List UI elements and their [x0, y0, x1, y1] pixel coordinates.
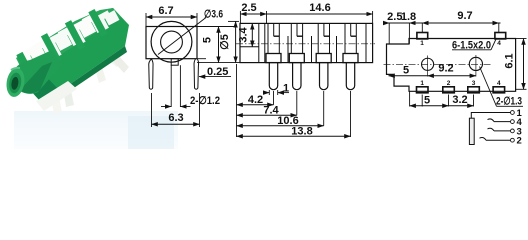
- svg-text:6.1: 6.1: [504, 53, 516, 68]
- top view: label 6-1.5x2.0: [452, 38, 497, 52]
- front view: left leg: [149, 59, 153, 89]
- side view: dim 2.5: [240, 2, 266, 23]
- top view: pad 1 top: [417, 33, 428, 48]
- photo: white pins behind body: [50, 33, 129, 114]
- photo: white base strip: [36, 81, 77, 111]
- side view: dim 14.6: [267, 2, 373, 23]
- top view: centerline: [384, 63, 493, 65]
- front view: right leg: [194, 59, 199, 89]
- front view: outer circle (bushing): [151, 21, 192, 62]
- schematic: contact to pin 4: [488, 117, 523, 128]
- svg-text:4.2: 4.2: [248, 94, 263, 106]
- side view: dim 7.4: [237, 104, 297, 116]
- side view: left ref ext line: [236, 64, 238, 137]
- top view: hole A: [422, 56, 434, 77]
- side view: contact 3: [316, 23, 331, 89]
- svg-text:2: 2: [447, 80, 451, 87]
- front view: dim dia5 vertical: [219, 21, 236, 62]
- side view: dim 10.6: [237, 115, 324, 127]
- top view: body outline: [387, 39, 516, 92]
- top view: top dim line: [384, 23, 501, 44]
- side view: dim 4.2: [237, 94, 274, 106]
- top view: dim 3.2 bottom: [449, 94, 474, 106]
- front view: body: [146, 27, 197, 59]
- svg-text:1: 1: [420, 40, 424, 47]
- svg-text:2-∅1.2: 2-∅1.2: [190, 95, 220, 107]
- svg-text:14.6: 14.6: [309, 2, 330, 14]
- schematic: wire to pin 1: [471, 108, 522, 119]
- svg-text:4: 4: [497, 40, 501, 47]
- front view: center tab: [171, 59, 178, 65]
- svg-text:9.2: 9.2: [438, 63, 453, 75]
- side view: dim 13.8: [237, 125, 351, 137]
- svg-text:∅5: ∅5: [219, 34, 231, 50]
- photo: green jack body: [16, 8, 129, 101]
- svg-text:4: 4: [497, 80, 501, 87]
- schematic: contact to pin 2: [480, 136, 522, 147]
- svg-text:6.7: 6.7: [158, 5, 173, 17]
- top view: label 2-dia1.3: [480, 67, 524, 108]
- side view: dim 1 (pin width): [263, 83, 289, 96]
- top view: dim 6.1 right: [504, 39, 527, 90]
- front view: dim 0.25: [197, 59, 231, 78]
- svg-text:2-∅1.3: 2-∅1.3: [496, 96, 522, 108]
- side view: left wall: [240, 23, 265, 62]
- schematic: sleeve bar: [469, 118, 474, 144]
- side view: pin ext lines: [274, 91, 351, 137]
- svg-text:∅3.6: ∅3.6: [204, 8, 223, 20]
- photo: white contact clips: [25, 12, 118, 70]
- front view: dim 6.7 text: [158, 5, 173, 17]
- svg-text:1.8: 1.8: [401, 11, 416, 23]
- front view: dim 6.3: [152, 93, 200, 127]
- front view: dim 6.7 line: [146, 13, 197, 27]
- svg-text:5: 5: [202, 37, 214, 43]
- front view: dim 5 vertical: [202, 27, 219, 63]
- front view: leader for dia 3.6: [158, 18, 206, 55]
- side view: contact 4: [343, 23, 358, 89]
- svg-text:5: 5: [403, 65, 409, 77]
- svg-text:6.3: 6.3: [168, 112, 183, 124]
- photo: green walls between clips: [16, 9, 107, 75]
- svg-text:3: 3: [472, 80, 476, 87]
- top view: dim 5 (left, to hole A): [389, 65, 428, 77]
- top view: dim 9.2: [428, 63, 476, 76]
- svg-text:1: 1: [420, 80, 424, 87]
- svg-text:9.7: 9.7: [457, 10, 472, 22]
- front view: inner circle (hole): [161, 31, 183, 53]
- top view: bottom pads 1-4: [417, 80, 505, 93]
- front view: right ext lines: [197, 21, 241, 62]
- side view: body outline: [240, 23, 373, 62]
- svg-text:13.8: 13.8: [291, 125, 312, 137]
- svg-text:1: 1: [283, 83, 289, 95]
- top view: pad 4 top: [495, 33, 506, 48]
- side view: right wall: [365, 23, 367, 62]
- svg-text:2.5: 2.5: [241, 2, 256, 14]
- side view: internal walls: [288, 36, 337, 63]
- svg-text:5: 5: [424, 95, 430, 107]
- front view: dim 2-dia1.2: [161, 65, 220, 107]
- side view: centerline: [236, 43, 375, 45]
- front view: dia 3.6 text: [204, 8, 223, 20]
- top view: dims 2.5 1.8 9.7 texts: [387, 10, 472, 23]
- side view: contact 1: [266, 23, 281, 89]
- side view: contact 2: [289, 23, 304, 89]
- side view: dim 3.4: [238, 23, 253, 46]
- svg-text:2: 2: [517, 136, 522, 147]
- top view: hole B: [469, 55, 482, 77]
- svg-text:3.2: 3.2: [452, 94, 467, 106]
- top view: dim 5 bottom: [410, 91, 474, 107]
- svg-text:3.4: 3.4: [238, 26, 250, 42]
- schematic: contact to pin 3: [488, 126, 522, 137]
- photo reflection wash: [14, 111, 178, 149]
- photo: barrel: [5, 50, 62, 98]
